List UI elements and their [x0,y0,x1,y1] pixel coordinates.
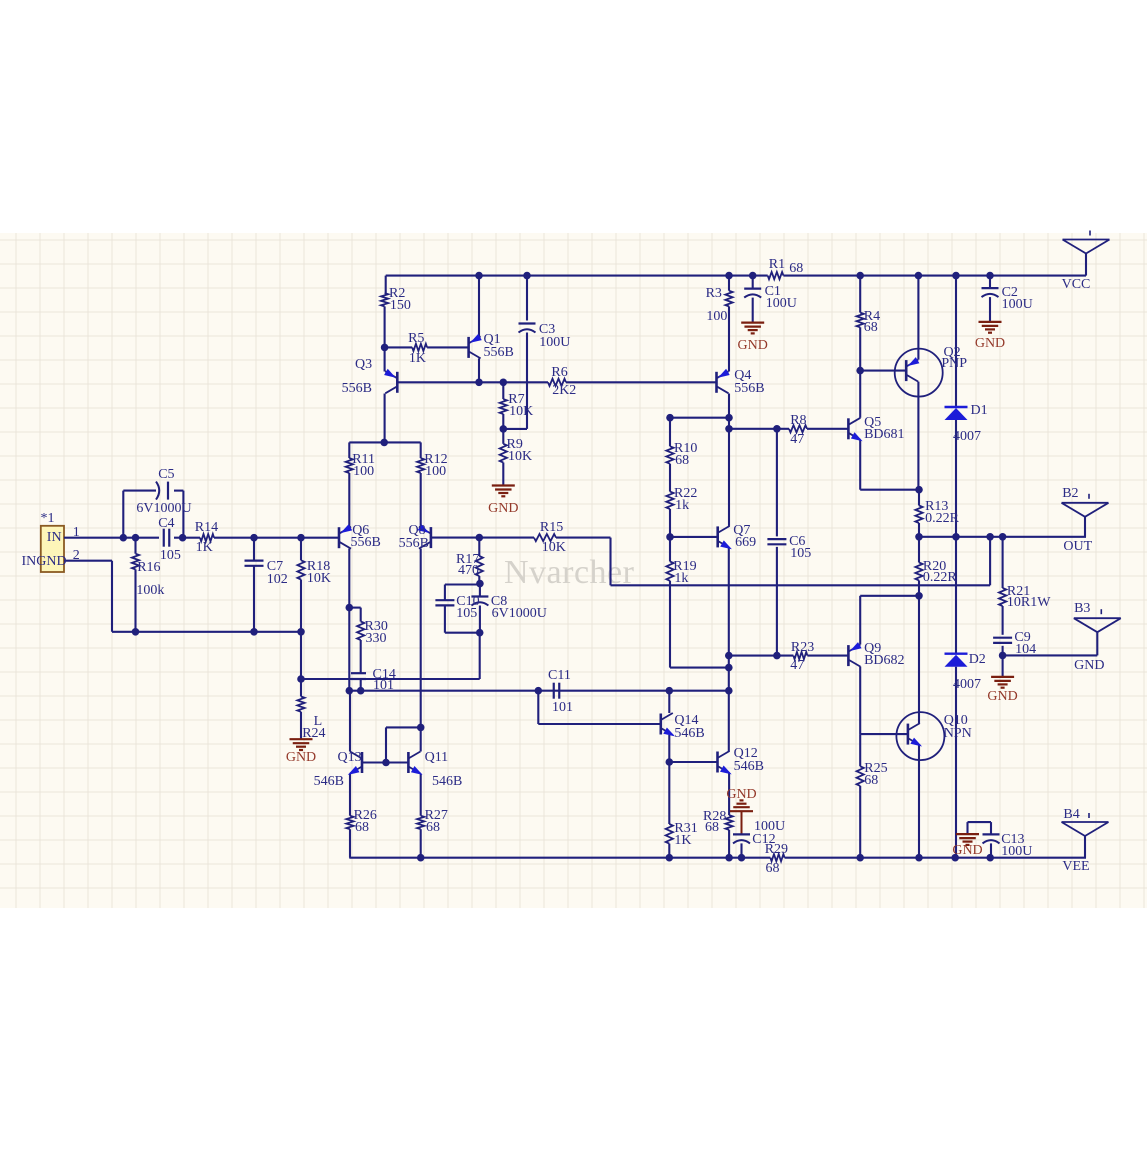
svg-text:1k: 1k [675,498,689,513]
svg-text:10K: 10K [542,540,566,555]
svg-text:INGND: INGND [22,554,67,569]
svg-text:GND: GND [952,843,982,858]
svg-text:100k: 100k [136,583,164,598]
svg-text:1K: 1K [409,351,426,366]
svg-text:1: 1 [73,525,80,540]
svg-text:100: 100 [353,464,374,479]
svg-text:0.22R: 0.22R [923,570,958,585]
svg-text:4007: 4007 [953,677,981,692]
svg-text:B4: B4 [1063,807,1079,822]
svg-text:VEE: VEE [1062,859,1089,874]
svg-text:R1: R1 [769,257,785,272]
svg-text:100U: 100U [766,296,797,311]
svg-text:R16: R16 [137,560,160,575]
svg-text:10R1W: 10R1W [1007,595,1051,610]
svg-text:556B: 556B [399,536,429,551]
svg-text:GND: GND [987,689,1017,704]
svg-text:IN: IN [47,530,62,545]
svg-text:556B: 556B [734,381,764,396]
svg-text:C4: C4 [158,516,174,531]
svg-text:R15: R15 [540,520,563,535]
svg-text:Q11: Q11 [425,750,449,765]
svg-text:330: 330 [366,631,387,646]
svg-text:*1: *1 [41,511,55,526]
svg-text:150: 150 [390,298,411,313]
svg-text:10K: 10K [508,449,532,464]
svg-text:VCC: VCC [1062,277,1091,292]
svg-text:104: 104 [1015,642,1036,657]
svg-text:B2: B2 [1062,486,1078,501]
svg-text:GND: GND [726,787,756,802]
svg-text:68: 68 [705,820,719,835]
svg-text:R23: R23 [791,640,814,655]
svg-text:GND: GND [738,338,768,353]
svg-text:68: 68 [675,453,689,468]
svg-text:2K2: 2K2 [552,383,576,398]
svg-text:68: 68 [766,861,780,876]
svg-text:1K: 1K [196,540,213,555]
svg-text:D1: D1 [971,403,988,418]
svg-text:105: 105 [456,606,477,621]
svg-text:68: 68 [426,820,440,835]
svg-text:NPN: NPN [944,726,972,741]
svg-text:C5: C5 [158,467,174,482]
svg-text:10K: 10K [509,404,533,419]
svg-text:GND: GND [286,750,316,765]
svg-text:GND: GND [975,336,1005,351]
svg-text:100U: 100U [1001,844,1032,859]
svg-text:100: 100 [425,464,446,479]
svg-text:6V1000U: 6V1000U [136,501,191,516]
svg-text:GND: GND [1074,658,1104,673]
svg-text:R3: R3 [706,286,722,301]
svg-text:R29: R29 [765,842,788,857]
svg-text:BD682: BD682 [864,653,904,668]
svg-text:0.22R: 0.22R [925,511,960,526]
svg-text:R24: R24 [302,726,325,741]
svg-text:68: 68 [789,261,803,276]
svg-text:546B: 546B [674,726,704,741]
svg-text:6V1000U: 6V1000U [492,606,547,621]
svg-text:556B: 556B [351,535,381,550]
svg-text:556B: 556B [484,345,514,360]
svg-text:68: 68 [355,820,369,835]
svg-text:101: 101 [373,678,394,693]
svg-text:100: 100 [706,309,727,324]
svg-text:546B: 546B [432,774,462,789]
svg-text:100U: 100U [539,335,570,350]
svg-text:4007: 4007 [953,429,981,444]
svg-text:R6: R6 [551,365,567,380]
svg-text:47: 47 [790,432,804,447]
svg-text:C11: C11 [548,668,571,683]
svg-text:10K: 10K [307,571,331,586]
svg-text:105: 105 [790,546,811,561]
svg-text:1K: 1K [674,833,691,848]
svg-text:68: 68 [864,320,878,335]
svg-text:GND: GND [488,501,518,516]
svg-text:D2: D2 [969,652,986,667]
svg-text:Q3: Q3 [355,357,372,372]
svg-text:556B: 556B [342,381,372,396]
svg-text:Q13: Q13 [338,750,362,765]
svg-text:R8: R8 [790,413,806,428]
svg-text:669: 669 [735,535,756,550]
svg-text:102: 102 [267,572,288,587]
svg-text:470: 470 [458,563,479,578]
svg-text:1k: 1k [674,571,688,586]
svg-text:2: 2 [73,548,80,563]
svg-text:100U: 100U [1002,297,1033,312]
svg-text:PNP: PNP [941,356,967,371]
svg-text:BD681: BD681 [864,427,904,442]
svg-text:105: 105 [160,548,181,563]
svg-text:68: 68 [864,773,878,788]
svg-text:OUT: OUT [1063,539,1092,554]
svg-text:47: 47 [790,658,804,673]
svg-text:101: 101 [552,700,573,715]
svg-text:R5: R5 [408,331,424,346]
svg-text:546B: 546B [734,759,764,774]
svg-text:R14: R14 [195,520,218,535]
svg-text:B3: B3 [1074,601,1090,616]
svg-text:546B: 546B [314,774,344,789]
